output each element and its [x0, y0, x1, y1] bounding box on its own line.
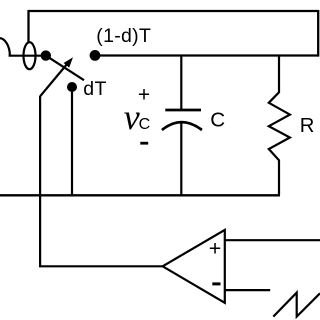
switch blade: [46, 56, 84, 81]
node dT dot: [67, 82, 77, 92]
svg-text:dT: dT: [83, 78, 107, 100]
inductor L partial arc: [0, 38, 10, 56]
label comparator minus input: [212, 282, 220, 285]
inductor L loop: [24, 42, 36, 69]
wire comparator output: [39, 265, 163, 267]
svg-text:v: v: [124, 97, 140, 137]
svg-text:(1-d)T: (1-d)T: [96, 25, 151, 47]
wire dT throw to bottom rail: [71, 87, 73, 195]
label vC minus: [140, 142, 148, 145]
op-amp U1 comparator: [163, 230, 225, 303]
bottom rail wire: [0, 194, 280, 196]
svg-text:C: C: [210, 108, 225, 131]
wire: top rail right drop: [317, 10, 319, 57]
capacitor C top lead: [180, 56, 182, 111]
capacitor C top plate: [165, 109, 201, 112]
wire: top rail left drop: [27, 10, 29, 42]
node (1-d)T dot: [90, 50, 101, 61]
switch pole junction dot: [41, 50, 51, 60]
svg-text:C: C: [139, 116, 151, 133]
capacitor C bottom lead: [180, 122, 182, 196]
svg-text:R: R: [300, 115, 315, 137]
wire inductor to switch pole: [9, 55, 46, 57]
svg-text:+: +: [138, 84, 150, 107]
wire plus input: [225, 239, 320, 241]
wire minus input: [225, 289, 270, 291]
wire feedback vertical: [39, 96, 41, 266]
switch actuation arrow: [40, 57, 73, 96]
sawtooth waveform: [273, 293, 320, 317]
capacitor C curved plate: [162, 122, 202, 130]
resistor R: [269, 56, 290, 196]
label vC: [124, 97, 150, 137]
svg-text:+: +: [209, 237, 222, 261]
top rail wire: [29, 10, 319, 12]
wire output node: [95, 54, 318, 56]
